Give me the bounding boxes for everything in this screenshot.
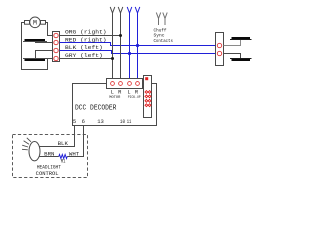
svg-text:BRN: BRN <box>44 150 54 157</box>
svg-text:BLK (left): BLK (left) <box>65 44 103 51</box>
svg-text:PICK-UP: PICK-UP <box>128 96 141 100</box>
svg-text:M: M <box>33 20 37 27</box>
svg-text:L: L <box>111 90 114 96</box>
svg-text:BLK: BLK <box>58 140 69 147</box>
svg-text:Contacts: Contacts <box>154 38 174 44</box>
svg-text:RED (right): RED (right) <box>65 36 107 43</box>
svg-text:13: 13 <box>97 118 104 125</box>
svg-text:MOTOR: MOTOR <box>109 96 121 100</box>
svg-text:GRY (left): GRY (left) <box>65 52 103 59</box>
svg-text:11: 11 <box>127 118 132 125</box>
svg-text:6: 6 <box>82 118 85 125</box>
svg-text:R1: R1 <box>61 159 66 165</box>
svg-text:CONTROL: CONTROL <box>36 171 59 177</box>
svg-text:HEADLIGHT: HEADLIGHT <box>37 165 62 171</box>
svg-text:L: L <box>127 90 130 96</box>
svg-text:5: 5 <box>73 118 76 125</box>
svg-text:ORG (right): ORG (right) <box>65 29 107 36</box>
svg-text:DCC DECODER: DCC DECODER <box>75 104 117 112</box>
svg-text:Sync: Sync <box>154 33 165 39</box>
svg-text:WHT: WHT <box>69 150 80 157</box>
svg-text:10: 10 <box>120 118 125 125</box>
svg-text:Chuff: Chuff <box>154 27 167 33</box>
